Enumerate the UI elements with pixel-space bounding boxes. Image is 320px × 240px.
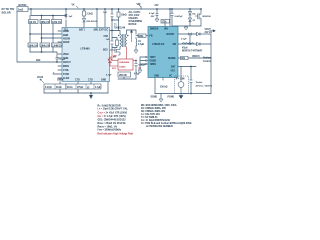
svg-text:25V: 25V <box>151 16 155 18</box>
svg-text:FBOW: FBOW <box>63 38 71 40</box>
svg-text:30.9k: 30.9k <box>56 87 62 89</box>
svg-text:1µF: 1µF <box>103 12 107 14</box>
bypass capacitor C9 <box>149 13 159 18</box>
svg-text:47µH: 47µH <box>182 47 188 50</box>
wire IC1 SW1 to primary <box>110 31 121 35</box>
snubber resistor R12 top <box>117 12 127 17</box>
svg-text:680k: 680k <box>138 36 144 38</box>
svg-text:SYNC: SYNC <box>63 74 70 76</box>
svg-text:CTO: CTO <box>75 80 80 82</box>
wire clamp loop <box>172 9 201 26</box>
svg-text:CTRL: CTRL <box>63 70 70 72</box>
wire SENSE row y58 <box>178 57 211 59</box>
svg-text:BSS126: BSS126 <box>203 16 212 18</box>
wire snubber2 pair <box>112 20 117 50</box>
svg-text:6V TO 76V: 6V TO 76V <box>2 7 15 11</box>
resistor R13 sense <box>181 56 189 60</box>
sample inductor LS <box>135 39 138 47</box>
resistor R1 <box>29 20 39 24</box>
box under red box <box>118 72 131 77</box>
wire BAT row y70 <box>178 67 196 94</box>
wire IC1 bottom pins <box>60 82 108 94</box>
IC U1 pin labels bottom <box>57 80 106 82</box>
svg-text:Radiant: Radiant <box>203 57 212 60</box>
wire vin tick x141 <box>140 6 142 10</box>
svg-text:SGND: SGND <box>151 97 158 99</box>
wire primary bottom to M1 <box>119 47 121 49</box>
wire bypass drop x112 <box>111 9 113 20</box>
red box module <box>118 59 133 70</box>
transformer T1 core <box>123 34 124 47</box>
svg-text:CTO: CTO <box>88 80 93 82</box>
svg-text:VTG: VTG <box>171 71 176 73</box>
svg-text:C0805: C0805 <box>119 66 126 68</box>
wire drop x84 zener <box>83 9 85 28</box>
wire vout right vertical <box>210 34 212 94</box>
wire clamp ground stub <box>185 26 187 27</box>
capacitor C2 bypass <box>103 12 113 17</box>
ground load <box>179 94 183 99</box>
svg-text:175k: 175k <box>162 22 168 24</box>
clamp capacitor C5 <box>171 13 184 18</box>
boost capacitor C6 <box>181 33 192 41</box>
svg-text:D1: CMSH3-40MA, 40V: D1: CMSH3-40MA, 40V <box>141 107 166 110</box>
IC2 left pin arrows <box>146 56 148 65</box>
junction dots <box>29 8 202 94</box>
wire IC2 vin drop <box>169 9 171 27</box>
svg-text:R = 10M: R = 10M <box>176 79 185 81</box>
wire IC2 boost <box>178 33 197 35</box>
wire divider drops row1 <box>30 16 53 20</box>
wire under red box row <box>118 70 136 79</box>
wire sample inductor ends <box>135 38 137 51</box>
wire cap C4 to rail <box>56 60 58 62</box>
svg-text:FBOR: FBOR <box>63 42 70 44</box>
red diode D1 <box>108 57 118 66</box>
wire divider feed <box>31 9 66 16</box>
svg-text:105k 1%: 105k 1% <box>52 22 61 24</box>
svg-text:TROT: TROT <box>150 57 157 59</box>
svg-text:DC1: DC1 <box>112 68 117 70</box>
svg-text:2kΩ: 2kΩ <box>36 60 41 62</box>
resistor R10 dmode <box>161 20 170 24</box>
capacitor C8 <box>190 80 213 88</box>
red HV wire down <box>108 47 136 66</box>
svg-text:750811546: 750811546 <box>114 26 126 29</box>
svg-text:RSNS = 25mΩ 1% 2512 SE: RSNS = 25mΩ 1% 2512 SE <box>98 123 127 125</box>
wire feedback bottom rail <box>17 12 62 63</box>
ground IC2 sgnd <box>159 99 163 102</box>
svg-text:T1: SC 5988-01: T1: SC 5988-01 <box>141 117 158 119</box>
svg-text:GNDK: GNDK <box>57 80 64 82</box>
load dashed box <box>175 76 189 94</box>
svg-text:30.1k: 30.1k <box>67 87 73 89</box>
clamp zener D4 <box>189 12 197 16</box>
svg-text:0.1µF: 0.1µF <box>106 75 112 77</box>
svg-text:CO: 4× 22µF/X5R/50V/1210: CO: 4× 22µF/X5R/50V/1210 <box>141 119 171 122</box>
wire sense box to IC2 <box>136 35 149 37</box>
svg-text:2mΩ: 2mΩ <box>18 10 23 12</box>
wire snubber join <box>112 20 119 31</box>
svg-text:WÜRTH 744778947: WÜRTH 744778947 <box>182 50 203 53</box>
wire divider taps to IC1 <box>30 31 62 42</box>
svg-text:SW1 EXTVCC: SW1 EXTVCC <box>94 30 109 32</box>
svg-text:VIN: VIN <box>164 29 168 31</box>
svg-text:1nF: 1nF <box>106 39 111 41</box>
svg-text:VREF: VREF <box>63 54 70 56</box>
svg-text:2.94M 1%: 2.94M 1% <box>52 44 62 47</box>
notes block mid <box>129 11 143 26</box>
svg-text:CSP: CSP <box>104 36 109 38</box>
wire secondary top <box>127 30 137 34</box>
svg-text:DFLS1100: DFLS1100 <box>87 21 98 23</box>
mosfet M1 <box>113 48 120 59</box>
svg-text:D2: CMSH1-40MA 40V: D2: CMSH1-40MA 40V <box>141 110 166 113</box>
svg-text:RIMON = 10kΩ, 1%: RIMON = 10kΩ, 1% <box>98 126 118 128</box>
wire divider bottom rail <box>30 52 57 56</box>
wire divider row1 to row2 <box>30 24 53 44</box>
svg-text:RB: RB <box>114 56 118 58</box>
ground bypass x157 <box>155 19 159 22</box>
wire dmode box stub <box>164 23 166 27</box>
wire boost diode to vout <box>200 33 211 35</box>
svg-text:BG2: BG2 <box>103 50 108 52</box>
wire IC2 sgnd drop <box>160 94 162 100</box>
svg-text:10kΩ: 10kΩ <box>121 15 127 17</box>
svg-text:0.45µF: 0.45µF <box>139 64 147 67</box>
svg-text:BOOST: BOOST <box>167 34 176 36</box>
svg-text:V(BAT): V(BAT) <box>192 55 200 58</box>
resistor R8 box <box>83 11 93 16</box>
svg-text:VOUT: VOUT <box>205 29 212 31</box>
secondary current arrow <box>130 30 132 42</box>
svg-text:0.1µF: 0.1µF <box>60 59 66 61</box>
resistor R5 <box>40 43 50 47</box>
svg-text:R1: 5.6kΩ RESISTOR: R1: 5.6kΩ RESISTOR <box>98 105 121 107</box>
svg-text:150 kΩ: 150 kΩ <box>160 86 168 88</box>
svg-text:FBIW: FBIW <box>63 31 70 33</box>
svg-text:CF: PCB SLB and Further B8709-: CF: PCB SLB and Further B8709-AAQ06-27HE <box>141 122 192 125</box>
ground open triangle secondary <box>134 50 138 53</box>
diode D7 on SW <box>197 42 201 45</box>
wire IC2 bottom rail <box>155 93 211 95</box>
diode D6 <box>197 32 201 35</box>
svg-text:LP = 10µH COILCRAFT XAL: LP = 10µH COILCRAFT XAL <box>98 108 129 111</box>
wire IC2 sw with diode <box>178 43 211 45</box>
IC U2 LT8316 <box>148 27 178 78</box>
transformer T1 secondary <box>125 34 126 47</box>
svg-text:VDS 80: VDS 80 <box>119 75 128 77</box>
svg-text:SOLAR: SOLAR <box>2 11 11 15</box>
svg-text:B72520: B72520 <box>19 5 28 7</box>
wire snubber drop x118.5 <box>118 9 120 20</box>
svg-text:24V: 24V <box>155 4 160 7</box>
svg-text:0.047µF: 0.047µF <box>175 15 184 18</box>
IC U2 pin labels <box>150 29 178 78</box>
IC U1 LT8490 <box>62 28 110 82</box>
svg-text:4-Pulse, V(OUT): 4-Pulse, V(OUT) <box>196 85 213 88</box>
capacitor C1 <box>65 15 73 19</box>
svg-text:DMODE: DMODE <box>150 29 159 31</box>
cap C7 near IC2 <box>135 61 147 71</box>
svg-text:M1: BSC100N10NSF, 100V, 100A: M1: BSC100N10NSF, 100V, 100A <box>141 104 177 107</box>
transformer T1 primary <box>120 34 127 47</box>
wire VIN pins x97 x105 <box>97 9 105 28</box>
clamp diode D5 <box>189 18 196 22</box>
fuse F1 <box>17 5 28 12</box>
svg-text:LS: LS <box>138 41 141 43</box>
svg-text:Red Indicates High Voltage Pat: Red Indicates High Voltage Path <box>98 132 134 135</box>
svg-text:1µF: 1µF <box>69 16 73 18</box>
svg-text:0.47µF: 0.47µF <box>45 86 53 89</box>
IC U1 pin labels left <box>63 31 71 80</box>
svg-text:GNDS: GNDS <box>150 61 157 63</box>
ground x140 <box>138 70 142 73</box>
zener D2 <box>83 19 98 23</box>
resistor R4 <box>28 43 38 47</box>
svg-text:BAT: BAT <box>171 66 176 69</box>
notes right column <box>141 104 192 128</box>
aux net arrow <box>40 79 44 83</box>
wire IC1 BG pin to M1 gate <box>110 49 116 51</box>
svg-text:NOTED: NOTED <box>129 24 137 26</box>
svg-text:1M 1%: 1M 1% <box>29 22 36 24</box>
inductor L1 <box>182 43 194 44</box>
svg-text:4.7µH: 4.7µH <box>138 43 144 46</box>
mosfet M2 <box>195 12 211 20</box>
wire divider bottoms to rail <box>30 47 53 52</box>
svg-text:w/ TB0009-003 GERBER: w/ TB0009-003 GERBER <box>146 126 173 128</box>
resistor R6 <box>52 43 63 47</box>
svg-text:0.1µF: 0.1µF <box>181 39 187 41</box>
sense resistor box to IC2 <box>138 34 146 38</box>
wire bypass cap x157 <box>156 9 158 19</box>
svg-text:COUT = 2× 47µF X7R (100V): COUT = 2× 47µF X7R (100V) <box>98 111 128 114</box>
svg-text:IMON: IMON <box>63 66 69 68</box>
svg-text:4.7µF: 4.7µF <box>134 73 140 76</box>
wire IC1 bottom rail <box>44 89 108 95</box>
svg-text:365k 1%: 365k 1% <box>41 22 50 24</box>
svg-text:VC: VC <box>169 76 173 78</box>
svg-text:GD1: CMHD4448 SOD123: GD1: CMHD4448 SOD123 <box>98 118 127 121</box>
wire IC1 left stubs <box>53 54 62 78</box>
svg-text:LT8490: LT8490 <box>81 46 91 50</box>
svg-text:ALL CAPS:: ALL CAPS: <box>129 11 141 14</box>
wire IC2 left pins to x140 <box>140 57 146 70</box>
wire boost cap junction drop <box>189 34 191 44</box>
svg-text:BST1: BST1 <box>79 30 86 32</box>
resistor R2 <box>40 20 50 24</box>
svg-text:4.7µF: 4.7µF <box>95 86 101 89</box>
svg-text:24V 2A: 24V 2A <box>205 31 213 34</box>
wire IC2 bottom drops <box>155 78 163 94</box>
ground clamp <box>184 27 188 30</box>
svg-text:L1: XAL7070-103: L1: XAL7070-103 <box>141 113 160 116</box>
svg-text:CIN = 4× 4.7µF X7R (100V): CIN = 4× 4.7µF X7R (100V) <box>98 115 126 118</box>
svg-text:VAUX: VAUX <box>37 76 44 79</box>
svg-text:294k 1%: 294k 1% <box>29 44 38 47</box>
notes left column <box>98 105 134 135</box>
svg-text:Trickle: Trickle <box>196 82 204 84</box>
red out wire <box>133 60 136 62</box>
svg-text:OTHERWISE: OTHERWISE <box>129 21 143 23</box>
net arrow vout <box>210 30 216 32</box>
svg-text:LT8316 EZ: LT8316 EZ <box>152 43 165 46</box>
snubber resistor R9 <box>116 40 119 46</box>
resistor R3 <box>52 20 62 24</box>
transformer phase dots <box>118 35 119 36</box>
svg-text:0.1µF: 0.1µF <box>149 13 155 15</box>
svg-text:FBIR: FBIR <box>63 35 69 37</box>
svg-text:VIN: VIN <box>137 4 141 6</box>
svg-text:SENSE: SENSE <box>168 58 176 60</box>
svg-text:UNLESS: UNLESS <box>129 18 139 20</box>
svg-text:470µF: 470µF <box>77 86 84 89</box>
svg-text:VX: VX <box>72 5 76 7</box>
svg-text:2.2kΩ: 2.2kΩ <box>87 14 93 16</box>
svg-text:FBOUT: FBOUT <box>63 62 71 64</box>
svg-text:FB: FB <box>150 36 153 38</box>
red secondary bottom wire <box>126 47 128 59</box>
svg-text:PGND: PGND <box>168 97 175 99</box>
snubber capacitor C3 <box>106 39 114 44</box>
svg-text:X7R, 100V: X7R, 100V <box>129 15 140 17</box>
svg-text:GND: GND <box>154 76 159 78</box>
svg-text:TMRS: TMRS <box>150 64 157 66</box>
wire VIN drop x66 <box>65 9 67 28</box>
IC1 bottom component row left <box>44 84 66 89</box>
ground main <box>89 95 93 99</box>
svg-text:Control: Control <box>203 60 211 63</box>
svg-text:FSW = 300kHz/200kHz: FSW = 300kHz/200kHz <box>98 130 123 132</box>
IC1 bottom component row right <box>66 84 101 89</box>
wire top rail VIN <box>28 8 201 10</box>
svg-text:CMHD459: CMHD459 <box>119 61 130 64</box>
svg-text:CLKD: CLKD <box>63 78 70 80</box>
capacitor C4 <box>56 56 66 61</box>
net label VX tick <box>76 6 79 8</box>
svg-text:GND: GND <box>101 80 106 82</box>
svg-text:294k 1%: 294k 1% <box>41 44 50 47</box>
